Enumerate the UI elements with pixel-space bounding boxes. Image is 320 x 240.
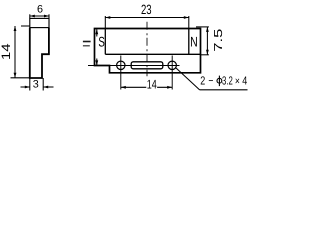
svg-text:×: ×: [235, 75, 240, 87]
svg-text:3.2: 3.2: [222, 75, 233, 88]
svg-text:14: 14: [0, 43, 13, 60]
svg-text:−: −: [208, 75, 213, 88]
svg-text:S: S: [98, 34, 104, 50]
svg-text:6: 6: [37, 3, 43, 15]
svg-text:2: 2: [200, 75, 205, 88]
svg-text:3: 3: [33, 79, 39, 91]
svg-text:4: 4: [242, 75, 247, 88]
svg-text:7.5: 7.5: [212, 29, 225, 52]
svg-text:23: 23: [141, 2, 152, 17]
svg-text:14: 14: [147, 77, 157, 91]
svg-text:N: N: [190, 34, 198, 50]
